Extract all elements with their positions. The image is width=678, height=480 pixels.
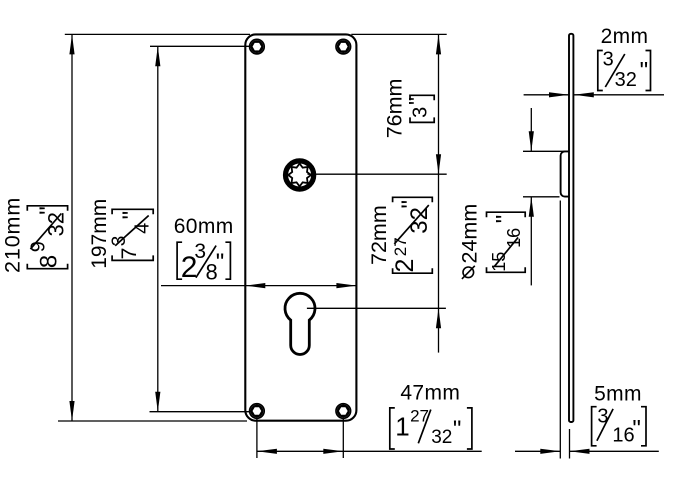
svg-text:7: 7 [117, 248, 141, 260]
dimension line 5mm [515, 450, 560, 452]
extension line plate face (5mm) [569, 429, 571, 459]
label bracket [3/32"] [598, 49, 651, 91]
svg-text:9: 9 [28, 241, 50, 252]
label bracket [3"] (rotated) [404, 95, 434, 122]
svg-text:4: 4 [132, 223, 154, 234]
svg-text:24mm: 24mm [458, 204, 482, 264]
svg-text:3: 3 [410, 107, 432, 118]
label bracket [15/16"] (rotated) [487, 212, 526, 272]
euro cylinder keyhole [285, 293, 315, 354]
extension line bottom screw right (47mm) [342, 419, 344, 458]
star hole 8-point star [288, 164, 311, 187]
label bracket [8 9/32"] (rotated) [27, 206, 68, 269]
extension line top screws (197mm) [150, 45, 250, 47]
dimension line 60mm [161, 285, 356, 287]
svg-text:2: 2 [391, 259, 419, 273]
front view: plate outline [245, 34, 356, 420]
label bracket [2 3/8"] [177, 240, 230, 284]
dimension line 210mm [71, 34, 73, 421]
svg-text:27: 27 [391, 237, 410, 256]
dimension line 197mm [157, 46, 159, 411]
dimension line d24mm [530, 108, 532, 151]
svg-text:": " [632, 416, 641, 443]
leader from star hole center [308, 173, 447, 175]
extension line bottom-left (210mm) [58, 420, 247, 422]
dimension line 2mm [524, 94, 569, 96]
label bracket [1 27/32"] [390, 406, 472, 449]
svg-text:": " [404, 97, 429, 105]
svg-text:32: 32 [44, 212, 69, 236]
dimension tail 72mm outside arrow [438, 308, 440, 352]
screw hole top-left [250, 39, 265, 54]
svg-text:": " [640, 58, 649, 85]
svg-text:60mm: 60mm [174, 215, 234, 238]
svg-text:32: 32 [615, 69, 637, 91]
svg-text:1: 1 [395, 412, 409, 442]
star hole ring [286, 161, 314, 189]
extension line collar top (d24) [523, 150, 568, 152]
svg-text:2mm: 2mm [601, 25, 649, 48]
svg-text:": " [35, 206, 62, 215]
leader from keyhole center [307, 307, 446, 309]
extension line collar bottom (d24) [523, 196, 560, 198]
extension line bottom screws (197mm) [150, 411, 250, 413]
screw hole top-right [336, 39, 351, 54]
extension line bump face (5mm) [559, 201, 561, 459]
screw hole bottom-right [336, 404, 351, 419]
screw hole bottom-left [250, 404, 265, 419]
side view plate [569, 34, 573, 422]
extension line top-right (76mm) [351, 33, 446, 35]
extension line bottom screw left (47mm) [256, 419, 258, 458]
svg-text:3: 3 [597, 405, 608, 427]
label bracket [3/16"] [592, 405, 646, 446]
svg-text:": " [397, 200, 424, 209]
svg-text:32: 32 [406, 207, 433, 234]
svg-text:197mm: 197mm [88, 199, 111, 269]
svg-text:8: 8 [36, 255, 63, 268]
label bracket [2 27/32"] (rotated) [391, 197, 433, 273]
svg-text:32: 32 [431, 427, 452, 448]
side view collar bump [561, 151, 569, 196]
svg-text:210mm: 210mm [0, 197, 24, 273]
svg-text:76mm: 76mm [383, 79, 407, 139]
svg-text:3: 3 [603, 49, 614, 71]
svg-text:16: 16 [504, 228, 524, 248]
label d24mm diameter symbol [462, 266, 475, 279]
svg-text:": " [492, 215, 519, 224]
label bracket [7 3/4"] (rotated) [109, 209, 154, 260]
svg-text:47mm: 47mm [400, 381, 460, 404]
svg-text:3: 3 [194, 240, 206, 263]
svg-text:": " [216, 249, 225, 276]
svg-text:72mm: 72mm [367, 205, 391, 265]
dimension line 76mm / 72mm [438, 34, 440, 308]
svg-text:5mm: 5mm [594, 383, 642, 406]
svg-text:16: 16 [612, 425, 634, 447]
extension line top-left (210mm) [65, 33, 250, 35]
dimension line 47mm [257, 450, 482, 452]
svg-text:": " [118, 211, 145, 220]
svg-text:": " [453, 416, 462, 443]
